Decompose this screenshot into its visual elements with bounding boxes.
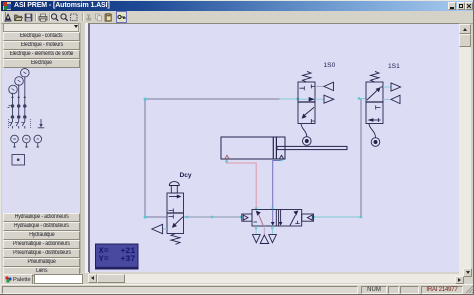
- left panel bottom buttons: [3, 213, 80, 222]
- valve 1S0 exhaust line mid: [315, 98, 324, 100]
- toolbar icon: new: [5, 13, 11, 20]
- valve 1S1 bottom arrow: [373, 119, 381, 121]
- valve Dcy button cap: [169, 182, 179, 186]
- svg-text:1S0: 1S0: [324, 62, 336, 69]
- toolbar icon: cut (disabled): [88, 14, 90, 18]
- valve 5/2 supply stub 1: [263, 226, 265, 235]
- wire Dcy to pilot 12: [184, 216, 242, 218]
- window buttons: [448, 2, 456, 10]
- horizontal scrollbar: [88, 274, 459, 283]
- panel right strip: [80, 23, 85, 273]
- valve 5/2 right cell down path: [280, 210, 282, 223]
- valve 1S0: [298, 71, 334, 145]
- palette background: [2, 68, 80, 213]
- toolbar icon: save: [25, 14, 32, 21]
- valve 1S0 roller: [303, 137, 312, 146]
- valve 1S0 flow arrow mid: [299, 98, 309, 100]
- coordinates box: [96, 244, 139, 269]
- cylinder port B arrow: [279, 155, 283, 159]
- palette lamp symbols: [9, 85, 18, 94]
- wire bus horizontal top: [145, 98, 280, 100]
- status bar: [0, 284, 474, 295]
- valve 1S1 roller: [371, 138, 380, 147]
- canvas: [88, 23, 459, 272]
- valve 1S0 roller lever: [301, 124, 307, 137]
- valve 1S1: [366, 71, 401, 146]
- toolbar icon: zoom: [51, 14, 56, 19]
- title icon: [3, 2, 11, 10]
- valve 1S1 exhaust triangle mid: [391, 95, 400, 103]
- valve 1S1 spring: [371, 71, 380, 82]
- svg-text:Dcy: Dcy: [180, 172, 192, 179]
- valve 5/2 exhaust stub 5: [255, 226, 257, 235]
- cylinder rod: [277, 146, 347, 149]
- palette symbols: [3, 68, 88, 213]
- cylinder body: [221, 137, 347, 159]
- window borders: [0, 0, 474, 1]
- valve Dcy blocked port upper: [169, 209, 174, 213]
- wire 1S0 inlet cyan: [280, 98, 298, 100]
- valve Dcy: [152, 182, 184, 245]
- valve Dcy bottom diagonal: [175, 217, 183, 225]
- valve Dcy exhaust triangle: [152, 224, 163, 233]
- palette box symbol: [12, 155, 25, 166]
- valve 5/2 exhaust stub 3: [271, 226, 273, 235]
- valve 1S1 exhaust line top: [383, 86, 391, 88]
- valve 1S0 exhaust line top: [315, 85, 324, 87]
- valve 1S0 exhaust triangle top: [324, 82, 334, 90]
- valve 5/2 exhaust triangle 5: [253, 235, 261, 243]
- palette tab row: [0, 276, 88, 286]
- valve 5/2 distributor: [242, 210, 314, 244]
- wire bus to Dcy: [145, 216, 167, 218]
- valve 1S0 spring: [303, 71, 312, 82]
- left panel combobox: [3, 23, 79, 32]
- valve 1S0 bottom diagonal: [304, 107, 314, 115]
- toolbar icon: paste: [105, 14, 111, 21]
- valve Dcy spring: [171, 234, 180, 245]
- palette contact dots: [11, 105, 14, 108]
- palette contact group: [8, 119, 10, 128]
- node markers: [144, 97, 362, 229]
- title bar: [1, 1, 473, 11]
- wire cylinder port A pink: [227, 159, 257, 210]
- toolbar icon: open folder: [15, 15, 22, 21]
- valve 5/2 left cell down path: [272, 210, 274, 223]
- title text: [14, 2, 110, 9]
- valve 5/2 pilot 12: [242, 214, 252, 221]
- palette meter circles: [11, 135, 19, 143]
- valve 5/2 supply triangle 1: [260, 235, 269, 244]
- valve 5/2 exhaust triangle 3: [269, 235, 277, 243]
- valve 1S0 blocked port top right: [311, 84, 315, 88]
- svg-text:1S1: 1S1: [388, 63, 400, 70]
- valve 1S1 top diagonal: [367, 91, 377, 101]
- wire 1S1 inlet stub cyan: [359, 98, 367, 100]
- cylinder piston: [272, 138, 274, 159]
- valve Dcy button stem: [171, 186, 177, 194]
- toolbar icon: printer: [39, 17, 47, 21]
- wire pilot 14 to 1S1: [314, 216, 362, 218]
- valve 5/2 right cell flow diagonal: [290, 215, 296, 226]
- valve Dcy exhaust stub: [163, 228, 167, 230]
- toolbar icon: copy (disabled): [96, 14, 100, 19]
- valve 1S1 exhaust triangle top: [391, 83, 401, 91]
- toolbar icon: zoom plus: [61, 14, 66, 19]
- valve 1S0 exhaust triangle mid: [324, 95, 334, 103]
- vertical scrollbar: [459, 24, 471, 277]
- valve 5/2 left cell flow diagonal: [259, 215, 263, 225]
- valve 1S1 blocked port mid: [376, 106, 381, 110]
- valve Dcy flow arrow top: [169, 196, 177, 198]
- valve 5/2 pilot 14: [302, 214, 314, 221]
- wire cylinder port B blue: [273, 159, 282, 210]
- valve 1S0 blocked port top left: [300, 86, 305, 90]
- toolbar icon: zoom frame: [71, 14, 78, 21]
- palette arrow down symbol: [40, 119, 42, 125]
- valve Dcy blocked port lower: [169, 215, 174, 219]
- cylinder port A arrow: [225, 155, 229, 159]
- valve 5/2 right cell blocked tee: [295, 221, 299, 224]
- valve 1S1 roller lever: [369, 124, 376, 138]
- valve 1S1 exhaust line mid: [383, 98, 391, 100]
- toolbar icon: key (selected): [117, 12, 127, 23]
- valve 5/2 left cell blocked dash: [254, 221, 258, 223]
- left panel top buttons: [3, 32, 80, 41]
- wire bus vertical left: [144, 99, 146, 217]
- toolbar: [1, 11, 473, 24]
- valve 1S0 blocked port bottom right: [311, 119, 315, 123]
- wire 1S1 output vertical: [360, 99, 362, 218]
